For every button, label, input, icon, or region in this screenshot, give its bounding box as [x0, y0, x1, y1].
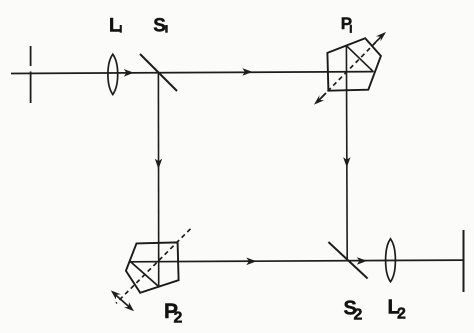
svg-text:2: 2 [354, 306, 363, 323]
P2 perpendicular double arrow [114, 293, 132, 309]
P2 internal reflection path [130, 261, 159, 287]
P1 translation axis (dashed, double arrow) [322, 41, 377, 97]
wire: source beam to P1 [11, 72, 373, 74]
svg-text:S: S [153, 16, 166, 37]
lens L2 [386, 239, 396, 282]
arrow on source beam [124, 69, 134, 77]
arrow on P2-S2 beam [246, 258, 256, 266]
beam splitter S2 [328, 242, 367, 279]
P2 translation axis (dashed) [116, 229, 191, 303]
source slit upper [30, 46, 32, 66]
svg-text:2: 2 [174, 309, 183, 326]
wire: S1 down to P2 [157, 73, 159, 287]
lens L1 [108, 54, 118, 94]
screen (output plane) [463, 230, 465, 292]
source slit lower [30, 72, 32, 104]
arrow on beam to P1 [242, 68, 252, 76]
beam splitter S1 [140, 54, 177, 91]
wire: P1 down to S2 [345, 46, 348, 261]
svg-text:L: L [109, 16, 121, 37]
wire: P2 to screen [130, 260, 464, 262]
arrow on S1-P2 beam [155, 159, 162, 169]
pentaprism P1 [327, 38, 381, 90]
arrow after S2 [357, 257, 367, 265]
P1 internal reflection path [346, 46, 373, 72]
svg-text:2: 2 [397, 306, 406, 323]
pentaprism P2 [126, 242, 179, 292]
arrow on P1-S2 beam [343, 157, 350, 167]
